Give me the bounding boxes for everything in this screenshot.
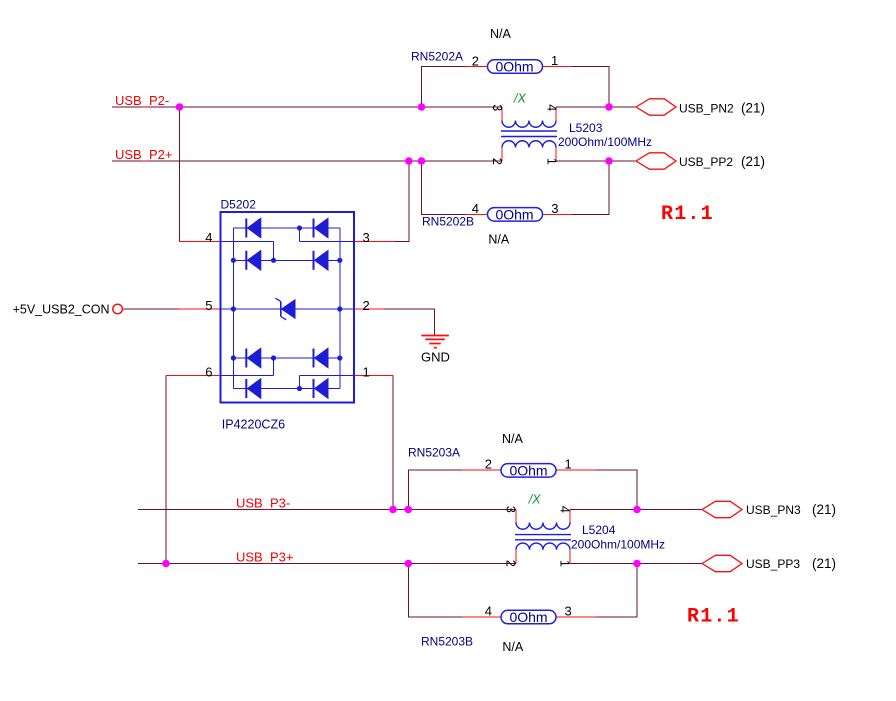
pin stub L5203 pin 2 [501,148,503,162]
svg-text:L5203: L5203 [569,121,603,135]
wire USB_P2+ to RN5202B pin4 [422,161,466,214]
junction USB_P3+ pin6 [162,560,170,568]
diode D5202 row1 right [314,218,329,238]
ESD diode array U D5202 body [220,212,354,403]
junction USB_PP3 RN5203B right [633,560,641,568]
pin stub D5202 pin 2 [354,308,384,310]
svg-text:2: 2 [504,560,518,567]
D5202 internal row 2 [233,259,339,261]
ground GND [421,336,449,348]
svg-text:5: 5 [205,298,212,313]
junction USB_PP2 RN5202B right [605,157,613,165]
svg-text:4: 4 [485,604,492,619]
svg-text:(21): (21) [741,101,765,116]
junction USB_P2- RN5202A left [418,103,426,111]
svg-text:N/A: N/A [502,432,524,446]
svg-text:USB_P2-: USB_P2- [115,93,169,108]
D5202 internal pin 6 link [220,358,273,376]
pin stub D5202 pin 6 [166,375,220,377]
svg-text:(21): (21) [812,502,836,517]
pin stub D5202 pin 5 [179,308,220,310]
diode D5202 row4 right [314,379,329,399]
svg-text:IP4220CZ6: IP4220CZ6 [222,418,285,432]
diode D5202 row3 right [314,348,329,368]
svg-text:RN5202A: RN5202A [411,50,463,64]
pin stub L5204 pin 1 [569,550,571,564]
resistor RN5203B body [501,609,556,625]
svg-text:/X: /X [513,92,526,106]
junction D5202 row4 [297,386,302,391]
svg-text:200Ohm/100MHz: 200Ohm/100MHz [558,135,652,149]
wire USB_P3+ [138,563,516,565]
diode D5202 row1 left [246,218,260,238]
svg-text:USB_PN3: USB_PN3 [746,503,801,517]
pin stub RN5202A pin 1 [543,66,572,68]
D5202 internal row 4 [233,388,339,390]
svg-text:3: 3 [551,201,558,216]
svg-text:USB_P2+: USB_P2+ [115,147,172,162]
svg-text:(21): (21) [812,556,836,571]
diode D5202 row4 left [246,379,260,399]
wire RN5203B pin3 to USB_PP3 [596,564,637,618]
junction USB_P3+ RN5203B left [405,560,413,568]
diode D5202 row3 left [246,348,260,368]
svg-text:GND: GND [421,350,450,365]
pin stub L5204 pin 4 [569,510,571,523]
svg-text:D5202: D5202 [221,198,257,212]
svg-text:4: 4 [205,230,212,245]
svg-text:0Ohm: 0Ohm [495,59,533,75]
svg-text:1: 1 [551,53,558,68]
svg-text:USB_PN2: USB_PN2 [679,102,734,116]
pin stub D5202 pin 1 [354,375,393,377]
pin stub RN5203B pin 3 [556,616,596,618]
D5202 internal right rail [339,228,341,389]
pin stub RN5202B pin 4 [466,213,488,215]
pin stub L5204 pin 3 [515,510,517,523]
svg-text:USB_PP2: USB_PP2 [679,155,733,169]
svg-text:N/A: N/A [502,640,524,654]
off-page connector USB_PP2 [636,153,676,169]
pin stub D5202 pin 4 [179,240,220,242]
D5202 internal mid row [220,308,354,310]
pin stub RN5203A pin 2 [462,469,501,471]
pin stub L5203 pin 4 [555,107,557,121]
svg-text:+5V_USB2_CON: +5V_USB2_CON [13,303,110,317]
diode D5202 row2 left [246,251,260,271]
svg-text:3: 3 [490,104,504,111]
wire +5V_USB2_CON to D5202 pin 5 [123,308,179,310]
wire D5202 pin 2 to GND [384,309,435,335]
svg-text:L5204: L5204 [582,523,616,537]
svg-text:N/A: N/A [490,27,512,41]
resistor RN5202A body [488,59,543,75]
resistor RN5202B body [488,206,543,222]
pin stub RN5202A pin 2 [466,66,488,68]
svg-text:2: 2 [490,158,504,165]
wire USB_P2+ [112,160,502,162]
common-mode choke L5203 [501,121,557,148]
svg-text:1: 1 [363,364,370,379]
svg-text:R1.1: R1.1 [661,203,714,226]
wire choke L5203 pin4 to USB_PN2 [556,106,636,108]
junction USB_PN3 RN5203A right [633,506,641,514]
off-page connector USB_PP3 [702,555,742,571]
pin stub L5204 pin 2 [515,550,517,564]
svg-text:4: 4 [544,104,558,111]
svg-text:4: 4 [472,201,479,216]
svg-text:N/A: N/A [488,232,510,246]
wire choke L5203 pin1 to USB_PP2 [556,160,636,162]
wire USB_P2- to D5202 pin 4 [179,107,181,241]
D5202 internal left rail [232,228,234,389]
wire USB_P3- to RN5203A pin2 [408,470,462,510]
off-page connector USB_PN3 [702,501,742,517]
svg-text:6: 6 [205,364,212,379]
junction D5202 row3 right rail [337,355,342,360]
svg-text:2: 2 [472,54,479,69]
junction D5202 mid right rail [337,306,342,311]
wire USB_P2- [112,106,502,108]
svg-text:RN5202B: RN5202B [422,215,474,229]
svg-text:RN5203B: RN5203B [421,635,473,649]
wire USB_P3- [138,509,516,511]
svg-text:0Ohm: 0Ohm [509,462,547,478]
common-mode choke L5204 [515,523,571,550]
D5202 internal row 1 [233,227,339,229]
pin stub RN5203B pin 4 [462,616,501,618]
resistor RN5203A body [501,462,556,478]
junction D5202 mid left rail [231,306,236,311]
D5202 internal pin 4 link [220,241,273,260]
svg-text:0Ohm: 0Ohm [495,206,533,222]
svg-text:3: 3 [504,506,518,513]
wire USB_P2- to RN5202A pin2 [422,67,466,108]
junction USB_P2+ RN5202B left [418,157,426,165]
svg-text:USB_PP3: USB_PP3 [746,557,800,571]
pin stub RN5202B pin 3 [543,213,572,215]
pin stub L5203 pin 3 [501,107,503,121]
junction D5202 row2 center [271,258,276,263]
junction USB_P2- x180 [176,103,184,111]
junction D5202 row2 left rail [231,258,236,263]
wire RN5203A pin1 to USB_PN3 [596,470,637,510]
svg-text:(21): (21) [741,154,765,169]
junction USB_P2+ pin3 [405,157,413,165]
D5202 internal pin 3 link [300,228,355,241]
pin stub D5202 pin 3 [354,240,395,242]
junction D5202 row3 left rail [231,355,236,360]
wire choke L5204 pin1 to USB_PP3 [570,563,702,565]
D5202 internal row 3 [233,357,339,359]
junction USB_PN2 RN5202A right [605,103,613,111]
D5202 internal pin 1 link [300,376,355,389]
svg-text:R1.1: R1.1 [687,606,740,629]
svg-text:2: 2 [485,457,492,472]
svg-text:3: 3 [363,230,370,245]
svg-text:1: 1 [544,158,558,165]
pin stub L5203 pin 1 [555,148,557,162]
wire USB_P2+ to D5202 pin 3 [395,161,409,241]
wire RN5202A pin1 to USB_PN2 [572,67,610,108]
svg-text:0Ohm: 0Ohm [509,609,547,625]
svg-text:1: 1 [565,457,572,472]
diode D5202 row2 right [314,251,329,271]
svg-text:200Ohm/100MHz: 200Ohm/100MHz [571,538,665,552]
power input +5V_USB2_CON terminal [113,304,123,314]
svg-text:1: 1 [558,560,572,567]
zener diode D5202 center [275,298,295,320]
svg-text:4: 4 [558,506,572,513]
wire D5202 pin 6 to USB_P3+ [166,376,179,564]
wire RN5202B pin3 to USB_PP2 [572,161,610,214]
svg-text:2: 2 [363,298,370,313]
wire D5202 pin 1 to USB_P3- [392,376,394,510]
svg-text:USB_P3+: USB_P3+ [236,549,293,564]
svg-text:3: 3 [565,604,572,619]
pin stub RN5203A pin 1 [556,469,596,471]
junction D5202 row2 right rail [337,258,342,263]
junction D5202 row3 center [271,355,276,360]
svg-text:USB_P3-: USB_P3- [236,495,290,510]
off-page connector USB_PN2 [636,99,676,115]
svg-text:RN5203A: RN5203A [408,446,460,460]
wire choke L5204 pin4 to USB_PN3 [570,509,702,511]
junction D5202 row1 [297,225,302,230]
svg-text:/X: /X [528,493,541,507]
junction USB_P3- pin1 [389,506,397,514]
junction USB_P3- RN5203A left [405,506,413,514]
wire USB_P3+ to RN5203B pin4 [408,564,462,618]
